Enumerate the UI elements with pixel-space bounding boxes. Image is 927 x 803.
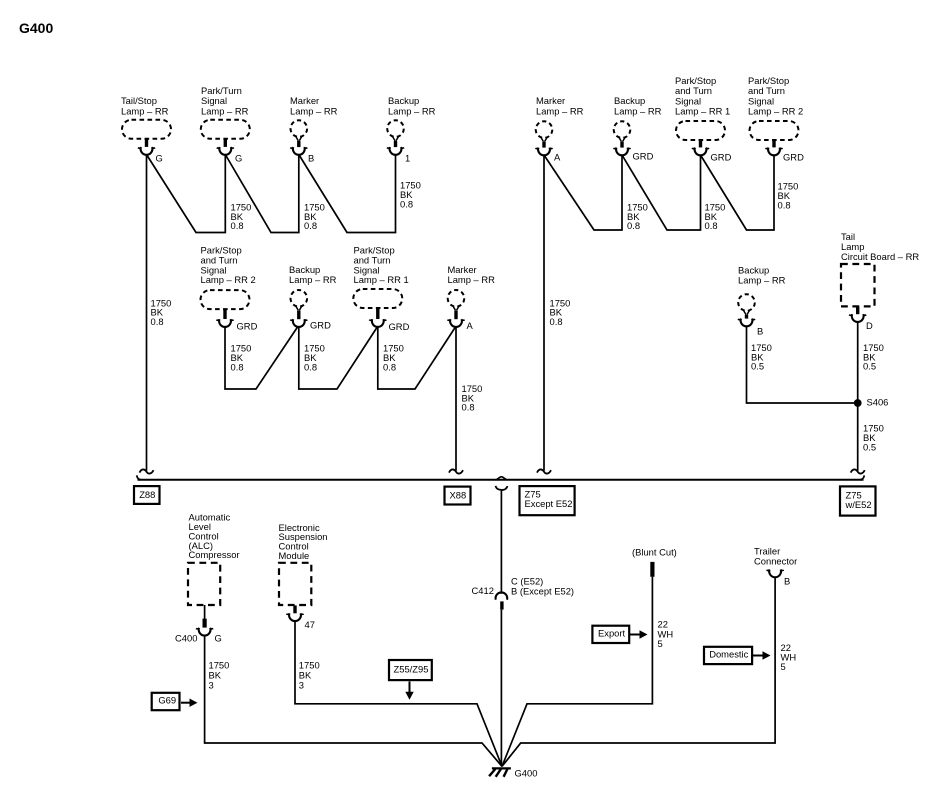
svg-text:Lamp – RR: Lamp – RR — [289, 274, 337, 285]
svg-text:B: B — [757, 325, 763, 336]
svg-text:w/E52: w/E52 — [845, 499, 872, 510]
svg-text:(Blunt Cut): (Blunt Cut) — [632, 547, 677, 558]
svg-text:B: B — [784, 575, 790, 586]
svg-text:3: 3 — [209, 679, 214, 690]
svg-text:0.8: 0.8 — [627, 220, 640, 231]
svg-text:S406: S406 — [867, 396, 889, 407]
svg-text:GRD: GRD — [633, 151, 654, 162]
svg-text:0.8: 0.8 — [231, 220, 244, 231]
svg-text:Lamp – RR 2: Lamp – RR 2 — [201, 274, 256, 285]
svg-text:0.8: 0.8 — [383, 361, 396, 372]
svg-text:C412: C412 — [472, 585, 494, 596]
svg-text:A: A — [554, 152, 561, 163]
svg-text:0.8: 0.8 — [400, 198, 413, 209]
svg-text:0.8: 0.8 — [304, 361, 317, 372]
svg-text:G400: G400 — [515, 767, 538, 778]
svg-text:B: B — [308, 153, 314, 164]
svg-text:G: G — [156, 153, 163, 164]
svg-text:0.5: 0.5 — [863, 441, 876, 452]
svg-text:GRD: GRD — [237, 320, 258, 331]
svg-text:Domestic: Domestic — [709, 648, 748, 659]
svg-text:GRD: GRD — [389, 321, 410, 332]
svg-text:Lamp – RR: Lamp – RR — [536, 105, 584, 116]
svg-text:A: A — [467, 320, 474, 331]
svg-text:Lamp – RR: Lamp – RR — [738, 275, 786, 286]
svg-text:47: 47 — [305, 619, 315, 630]
svg-text:Module: Module — [279, 550, 310, 561]
svg-text:Lamp – RR: Lamp – RR — [121, 105, 169, 116]
svg-text:C400: C400 — [175, 633, 197, 644]
svg-text:0.5: 0.5 — [863, 361, 876, 372]
svg-text:0.5: 0.5 — [751, 361, 764, 372]
svg-text:Except E52: Except E52 — [525, 498, 573, 509]
svg-text:Lamp – RR: Lamp – RR — [614, 105, 662, 116]
svg-text:5: 5 — [658, 638, 663, 649]
svg-text:Export: Export — [598, 627, 625, 638]
svg-text:Z88: Z88 — [139, 489, 155, 500]
svg-text:5: 5 — [781, 661, 786, 672]
svg-text:G: G — [215, 633, 222, 644]
svg-text:D: D — [866, 320, 873, 331]
svg-text:GRD: GRD — [711, 152, 732, 163]
svg-text:Lamp – RR 1: Lamp – RR 1 — [675, 105, 730, 116]
svg-text:Lamp – RR 2: Lamp – RR 2 — [748, 105, 803, 116]
svg-text:X88: X88 — [450, 490, 467, 501]
svg-text:G400: G400 — [19, 20, 53, 36]
svg-text:3: 3 — [299, 679, 304, 690]
svg-text:0.8: 0.8 — [151, 316, 164, 327]
svg-text:GRD: GRD — [783, 152, 804, 163]
svg-text:G69: G69 — [158, 695, 176, 706]
svg-text:G: G — [235, 153, 242, 164]
svg-text:1: 1 — [405, 153, 410, 164]
svg-text:0.8: 0.8 — [705, 220, 718, 231]
svg-text:0.8: 0.8 — [304, 220, 317, 231]
svg-text:0.8: 0.8 — [462, 402, 475, 413]
svg-text:Lamp – RR: Lamp – RR — [448, 274, 496, 285]
svg-text:0.8: 0.8 — [778, 199, 791, 210]
svg-text:Lamp – RR: Lamp – RR — [388, 105, 436, 116]
svg-text:GRD: GRD — [310, 320, 331, 331]
svg-text:Lamp – RR 1: Lamp – RR 1 — [354, 274, 409, 285]
svg-text:Z55/Z95: Z55/Z95 — [394, 664, 429, 675]
svg-text:0.8: 0.8 — [231, 361, 244, 372]
svg-text:Connector: Connector — [754, 555, 797, 566]
svg-text:B (Except E52): B (Except E52) — [511, 586, 574, 597]
svg-text:Lamp – RR: Lamp – RR — [290, 105, 338, 116]
svg-text:Lamp – RR: Lamp – RR — [201, 105, 249, 116]
svg-text:Compressor: Compressor — [189, 549, 240, 560]
svg-text:Circuit Board – RR: Circuit Board – RR — [841, 251, 919, 262]
svg-text:0.8: 0.8 — [550, 316, 563, 327]
